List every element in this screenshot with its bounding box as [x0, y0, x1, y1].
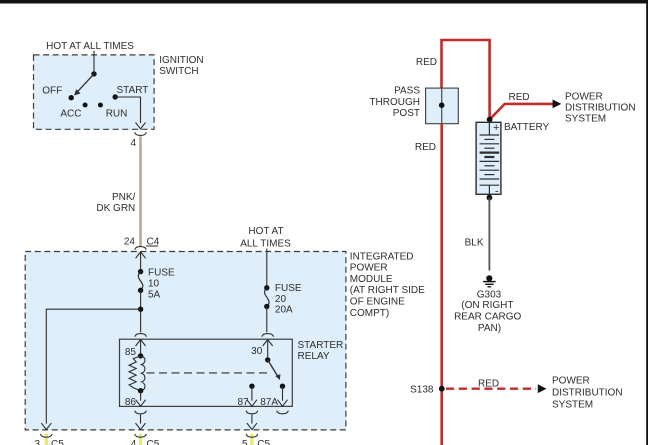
svg-text:PASS: PASS — [394, 86, 420, 97]
fuse FUSE 10 5A — [138, 267, 175, 300]
label POWER DISTRIBUTION SYSTEM (top) — [565, 91, 636, 124]
connector below relay pin 87 — [246, 411, 258, 414]
connector C5 pin 5 — [242, 434, 270, 445]
wire branch to C5 pin 3 — [41, 309, 140, 429]
wire RED S138 to power distribution (dashed) — [446, 379, 536, 390]
node branch junction — [138, 307, 143, 312]
svg-text:87: 87 — [237, 397, 249, 408]
svg-text:3: 3 — [34, 439, 40, 445]
pass through post — [369, 86, 458, 124]
label IGNITION SWITCH — [159, 55, 203, 77]
svg-text:RUN: RUN — [106, 108, 128, 119]
label BATTERY — [504, 122, 550, 133]
integrated power module box — [25, 252, 346, 430]
arrow to power distribution system (top) — [553, 100, 562, 109]
svg-text:C5: C5 — [257, 439, 270, 445]
svg-text:ALL TIMES: ALL TIMES — [240, 238, 291, 249]
battery — [476, 122, 501, 198]
label HOT AT ALL TIMES (fuse 20 feed) — [240, 226, 291, 250]
svg-text:(ON RIGHT: (ON RIGHT — [461, 300, 513, 311]
svg-text:PNK/: PNK/ — [112, 192, 136, 203]
svg-text:FUSE: FUSE — [148, 267, 175, 278]
wire hot-at-all-times feed into IPM — [266, 249, 268, 288]
connector below relay pin 86 — [135, 411, 147, 414]
svg-text:PAN): PAN) — [478, 323, 501, 334]
svg-text:DISTRIBUTION: DISTRIBUTION — [565, 103, 636, 114]
relay coil — [129, 353, 145, 393]
svg-text:(AT RIGHT SIDE: (AT RIGHT SIDE — [350, 285, 425, 296]
label RED (battery branch) — [509, 92, 530, 103]
svg-text:OF ENGINE: OF ENGINE — [350, 297, 405, 308]
svg-text:COMPT): COMPT) — [350, 308, 389, 319]
wire PNK/DK GRN — [96, 136, 140, 246]
ignition switch blade (to OFF) — [74, 74, 94, 96]
svg-text:MODULE: MODULE — [350, 274, 393, 285]
svg-text:RED: RED — [509, 92, 530, 103]
svg-text:HOT AT ALL TIMES: HOT AT ALL TIMES — [46, 41, 134, 52]
svg-text:FUSE: FUSE — [275, 283, 302, 294]
label POWER DISTRIBUTION SYSTEM (bottom) — [552, 376, 623, 411]
contact ACC — [60, 103, 87, 120]
svg-text:OFF: OFF — [42, 86, 62, 97]
contact START — [113, 85, 149, 100]
svg-text:BLK: BLK — [465, 237, 484, 248]
connector C5 pin 4 — [131, 434, 160, 445]
label INTEGRATED POWER MODULE — [350, 251, 425, 319]
wire RED pass-through-post to S138 — [440, 124, 443, 445]
connector at relay pin 85 — [125, 334, 147, 359]
wire RED battery to power distribution — [490, 104, 554, 120]
relay contact 87A — [260, 384, 287, 408]
relay pin 86 — [125, 391, 146, 408]
wire from HOT AT ALL TIMES into switch — [93, 51, 95, 74]
wire relay 87 to C5 pin 5 — [247, 414, 257, 429]
label RED (mid left) — [415, 142, 436, 153]
svg-text:THROUGH: THROUGH — [369, 97, 420, 108]
svg-text:STARTER: STARTER — [298, 340, 344, 351]
svg-text:20A: 20A — [275, 305, 293, 316]
svg-text:POWER: POWER — [552, 376, 590, 387]
connector pin 4 — [130, 132, 146, 149]
svg-text:+: + — [493, 122, 499, 134]
contact OFF — [42, 86, 74, 101]
relay contact 87 — [237, 384, 256, 408]
svg-text:S138: S138 — [410, 384, 434, 395]
svg-text:DISTRIBUTION: DISTRIBUTION — [552, 388, 623, 399]
ground G303 — [454, 275, 521, 334]
svg-text:4: 4 — [131, 439, 137, 445]
connector below relay pin 87A — [277, 411, 289, 414]
svg-text:10: 10 — [148, 279, 160, 290]
connector at relay pin 30 — [251, 334, 273, 360]
label STARTER RELAY — [298, 340, 344, 362]
connector C5 pin 3 — [34, 434, 64, 445]
svg-text:30: 30 — [251, 346, 263, 357]
svg-text:ACC: ACC — [60, 108, 81, 119]
svg-text:REAR CARGO: REAR CARGO — [454, 312, 521, 323]
svg-text:INTEGRATED: INTEGRATED — [350, 251, 414, 262]
svg-text:87A: 87A — [260, 397, 278, 408]
relay coil-contact dashed link — [147, 372, 268, 374]
wire fuse20 to relay pin 30 — [266, 307, 268, 333]
node battery negative — [487, 195, 493, 201]
svg-text:RED: RED — [416, 57, 437, 68]
svg-text:C5: C5 — [147, 439, 160, 445]
svg-text:86: 86 — [125, 397, 137, 408]
node battery positive — [487, 117, 493, 123]
svg-text:POST: POST — [393, 108, 420, 119]
svg-text:DK GRN: DK GRN — [96, 203, 135, 214]
starter relay box — [120, 339, 293, 406]
svg-text:POWER: POWER — [565, 91, 603, 102]
connector C4 pin 24 — [124, 237, 160, 250]
svg-text:G303: G303 — [477, 289, 502, 300]
fuse FUSE 20 20A — [264, 283, 302, 316]
svg-text:SYSTEM: SYSTEM — [552, 400, 593, 411]
relay switch blade — [265, 357, 280, 380]
wire RED battery feed (top loop) — [442, 40, 490, 120]
arrow to power distribution system (bottom) — [538, 384, 547, 393]
svg-text:POWER: POWER — [350, 263, 388, 274]
yellow wire at C5 pin 3 — [45, 434, 48, 445]
svg-text:5: 5 — [242, 439, 248, 445]
contact RUN — [98, 103, 127, 120]
node ignition pivot — [91, 71, 96, 76]
svg-text:IGNITION: IGNITION — [159, 55, 203, 66]
wire relay 86 to C5 pin 4 — [136, 414, 146, 429]
svg-text:BATTERY: BATTERY — [504, 122, 550, 133]
yellow wire at C5 pin 4 — [139, 434, 142, 445]
svg-text:4: 4 — [130, 138, 136, 149]
label HOT AT ALL TIMES (ignition feed) — [46, 41, 134, 52]
ignition switch box — [34, 55, 155, 129]
svg-text:HOT AT: HOT AT — [248, 226, 283, 237]
wire fuse10 to relay pin 85 — [140, 290, 142, 332]
svg-text:-: - — [495, 186, 499, 198]
yellow wire at C5 pin 5 — [250, 434, 253, 445]
svg-text:85: 85 — [125, 347, 137, 358]
wire from START to pin 4 — [115, 97, 145, 129]
wire BLK battery to ground — [465, 198, 490, 271]
svg-text:5A: 5A — [148, 290, 161, 301]
svg-text:RED: RED — [478, 379, 499, 390]
svg-text:24: 24 — [124, 237, 136, 248]
node S138 — [410, 384, 445, 395]
svg-text:SYSTEM: SYSTEM — [565, 113, 606, 124]
svg-text:RED: RED — [415, 142, 436, 153]
label RED (upper left) — [416, 57, 437, 68]
svg-text:RELAY: RELAY — [298, 351, 330, 362]
svg-text:SWITCH: SWITCH — [159, 66, 198, 77]
svg-text:START: START — [117, 85, 149, 96]
svg-text:C5: C5 — [51, 439, 64, 445]
wire ign feed inside IPM (arrow at C4) — [136, 252, 146, 272]
